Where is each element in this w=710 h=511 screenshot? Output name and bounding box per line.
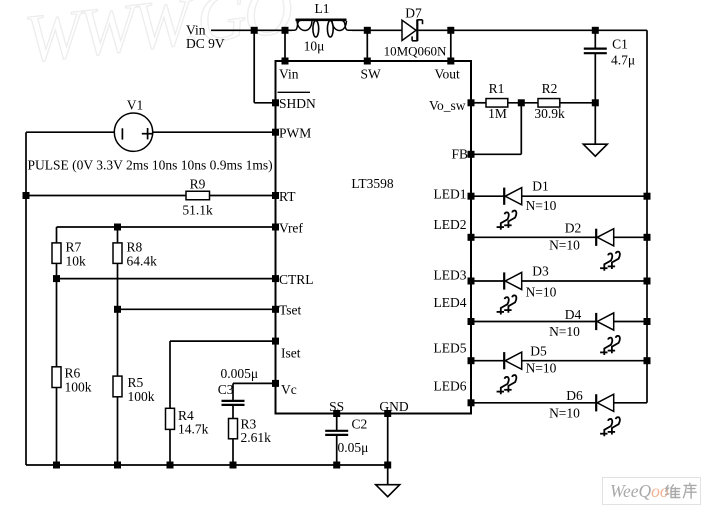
svg-text:C3: C3 — [218, 382, 234, 397]
svg-text:D1: D1 — [532, 179, 549, 194]
svg-text:LED5: LED5 — [434, 341, 467, 356]
svg-text:D6: D6 — [566, 388, 583, 403]
svg-text:Vout: Vout — [435, 66, 461, 81]
svg-text:Iset: Iset — [281, 346, 301, 361]
svg-text:64.4k: 64.4k — [127, 254, 158, 269]
svg-text:LED1: LED1 — [434, 187, 467, 202]
svg-text:LED2: LED2 — [434, 217, 467, 232]
svg-text:14.7k: 14.7k — [178, 422, 209, 437]
svg-text:Vin: Vin — [279, 66, 299, 81]
svg-text:N=10: N=10 — [549, 238, 580, 253]
svg-text:51.1k: 51.1k — [182, 203, 213, 218]
svg-text:V1: V1 — [127, 98, 144, 113]
svg-text:2.61k: 2.61k — [241, 430, 272, 445]
svg-text:100k: 100k — [128, 389, 155, 404]
svg-text:LT3598: LT3598 — [351, 176, 394, 191]
svg-text:10μ: 10μ — [304, 39, 325, 54]
svg-text:D4: D4 — [565, 307, 582, 322]
svg-text:GND: GND — [379, 399, 408, 414]
svg-text:WeeQoo: WeeQoo — [610, 481, 669, 501]
svg-text:Vo_sw: Vo_sw — [429, 98, 466, 113]
svg-text:0.05μ: 0.05μ — [338, 440, 369, 455]
svg-text:CTRL: CTRL — [279, 272, 314, 287]
svg-text:LED6: LED6 — [434, 379, 467, 394]
svg-text:4.7μ: 4.7μ — [611, 53, 635, 68]
svg-text:30.9k: 30.9k — [534, 106, 565, 121]
svg-text:Vc: Vc — [281, 382, 297, 397]
svg-text:N=10: N=10 — [549, 324, 580, 339]
svg-text:RT: RT — [279, 189, 296, 204]
svg-text:Vref: Vref — [279, 221, 303, 236]
svg-text:Tset: Tset — [279, 303, 302, 318]
svg-text:SHDN: SHDN — [279, 96, 316, 111]
svg-text:R5: R5 — [128, 375, 144, 390]
svg-text:R6: R6 — [65, 366, 81, 381]
svg-text:D7: D7 — [405, 6, 422, 21]
svg-text:100k: 100k — [65, 380, 92, 395]
svg-text:FB: FB — [451, 147, 468, 162]
svg-text:R7: R7 — [66, 240, 82, 255]
svg-text:SS: SS — [329, 399, 344, 414]
svg-text:R2: R2 — [542, 81, 558, 96]
svg-text:LED3: LED3 — [434, 268, 467, 283]
svg-text:PULSE (0V 3.3V 2ms 10ns 10ns 0: PULSE (0V 3.3V 2ms 10ns 10ns 0.9ms 1ms) — [28, 158, 273, 173]
svg-text:LED4: LED4 — [434, 295, 467, 310]
svg-text:10k: 10k — [66, 254, 87, 269]
svg-text:10MQ060N: 10MQ060N — [384, 44, 447, 59]
svg-text:N=10: N=10 — [526, 198, 557, 213]
svg-text:D3: D3 — [532, 264, 549, 279]
svg-text:N=10: N=10 — [526, 361, 557, 376]
svg-text:R8: R8 — [127, 240, 143, 255]
svg-text:D2: D2 — [565, 221, 582, 236]
svg-text:N=10: N=10 — [549, 406, 580, 421]
svg-text:R1: R1 — [489, 81, 505, 96]
svg-text:L1: L1 — [315, 1, 330, 16]
svg-text:C1: C1 — [612, 37, 628, 52]
svg-text:R9: R9 — [190, 177, 206, 192]
svg-text:D5: D5 — [530, 344, 547, 359]
svg-text:0.005μ: 0.005μ — [221, 366, 259, 381]
svg-text:C2: C2 — [352, 417, 368, 432]
svg-text:SW: SW — [361, 66, 382, 81]
svg-text:DC 9V: DC 9V — [186, 36, 225, 51]
svg-text:1M: 1M — [488, 106, 507, 121]
svg-text:PWM: PWM — [279, 126, 311, 141]
svg-text:N=10: N=10 — [526, 285, 557, 300]
